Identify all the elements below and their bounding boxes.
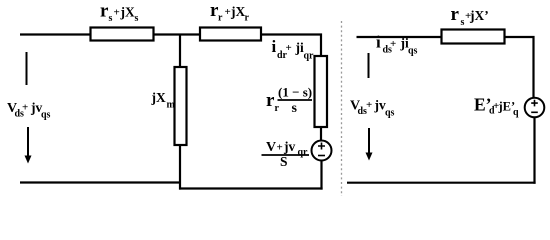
wire: rotor resistor to source V1 — [320, 127, 322, 141]
svg-text:i: i — [376, 33, 381, 52]
wire: between Rs and Rr — [153, 33, 201, 35]
svg-text:jX: jX — [151, 90, 166, 105]
label (v + jvqr)/s — [262, 139, 310, 169]
svg-text:S: S — [280, 154, 288, 169]
svg-text:s: s — [461, 17, 465, 28]
terminal tick (left circuit input) — [26, 52, 28, 85]
svg-text:qr: qr — [304, 51, 315, 62]
label rs + jXs — [100, 1, 139, 25]
wire: Rr to right corner, down to rotor resistor — [261, 35, 322, 58]
label ids + jiqs (right circuit current) — [376, 33, 418, 57]
wire: magnetizing branch bottom — [179, 145, 181, 190]
svg-text:jX: jX — [230, 4, 245, 19]
svg-text:qr: qr — [298, 147, 309, 158]
label jXm — [151, 90, 176, 111]
source V1 (slip voltage source) — [312, 141, 332, 161]
svg-text:+: + — [366, 99, 372, 111]
wire: bottom rail (right circuit) — [347, 182, 536, 184]
svg-text:r: r — [245, 13, 250, 24]
svg-text:s: s — [292, 101, 298, 116]
svg-text:jX: jX — [120, 5, 135, 20]
svg-text:jv: jv — [283, 139, 295, 154]
svg-text:r: r — [275, 103, 280, 114]
svg-text:qs: qs — [41, 110, 51, 121]
wire: bottom rail right segment (left circuit) — [179, 187, 323, 189]
terminal tick (right circuit input) — [368, 53, 370, 78]
resistor Rs box (stator impedance) — [91, 28, 154, 41]
svg-text:qs: qs — [385, 108, 395, 119]
svg-text:m: m — [167, 100, 176, 111]
svg-text:+: + — [225, 6, 231, 18]
svg-text:V: V — [266, 140, 276, 155]
resistor Rs' box (transient impedance) — [442, 30, 505, 44]
svg-text:+: + — [277, 142, 283, 154]
svg-text:+: + — [286, 42, 292, 54]
resistor Rr box (rotor impedance) — [200, 28, 261, 41]
dashed divider line — [341, 21, 343, 196]
reactance Xm box (magnetizing branch) — [175, 67, 187, 145]
resistor Rr(1-s)/s box (vertical) — [315, 56, 328, 127]
wire: magnetizing branch top — [179, 35, 181, 69]
svg-text:jX’: jX’ — [469, 8, 489, 23]
label E'd + jE'q — [474, 95, 519, 119]
source E' (voltage behind transient reactance) — [525, 98, 545, 118]
svg-text:i: i — [272, 37, 277, 56]
svg-text:+: + — [114, 7, 120, 19]
svg-text:q: q — [513, 107, 519, 118]
label vds + jvqs (left circuit) — [7, 100, 51, 121]
terminal tick is above; label vds + jvqs (right circuit) — [350, 98, 395, 119]
svg-text:s: s — [109, 13, 113, 24]
wire: stator top lead (left circuit) — [20, 33, 91, 35]
label rs + jX' — [451, 4, 489, 28]
wire: bottom rail left segment (left circuit) — [20, 181, 181, 183]
svg-text:s: s — [135, 13, 139, 24]
label rr(1-s)/s — [266, 85, 312, 117]
label rr + jXr — [210, 0, 250, 24]
svg-text:+: + — [22, 102, 28, 114]
svg-text:r: r — [218, 13, 223, 24]
wire: source V1 to bottom rail — [320, 161, 322, 190]
arrow: voltage direction (left circuit) — [25, 127, 32, 164]
wire: top lead (right circuit) — [357, 36, 443, 38]
label idr + jiqr (rotor current) — [272, 37, 315, 62]
wire: Rs' to right corner, down to source E' — [505, 37, 534, 98]
arrow: voltage direction (right circuit) — [366, 128, 373, 161]
svg-text:qs: qs — [408, 46, 418, 57]
svg-text:r: r — [451, 4, 460, 25]
svg-text:(1 − s): (1 − s) — [278, 85, 312, 100]
wire: source E' to bottom rail — [533, 117, 535, 184]
svg-text:+: + — [390, 38, 396, 50]
